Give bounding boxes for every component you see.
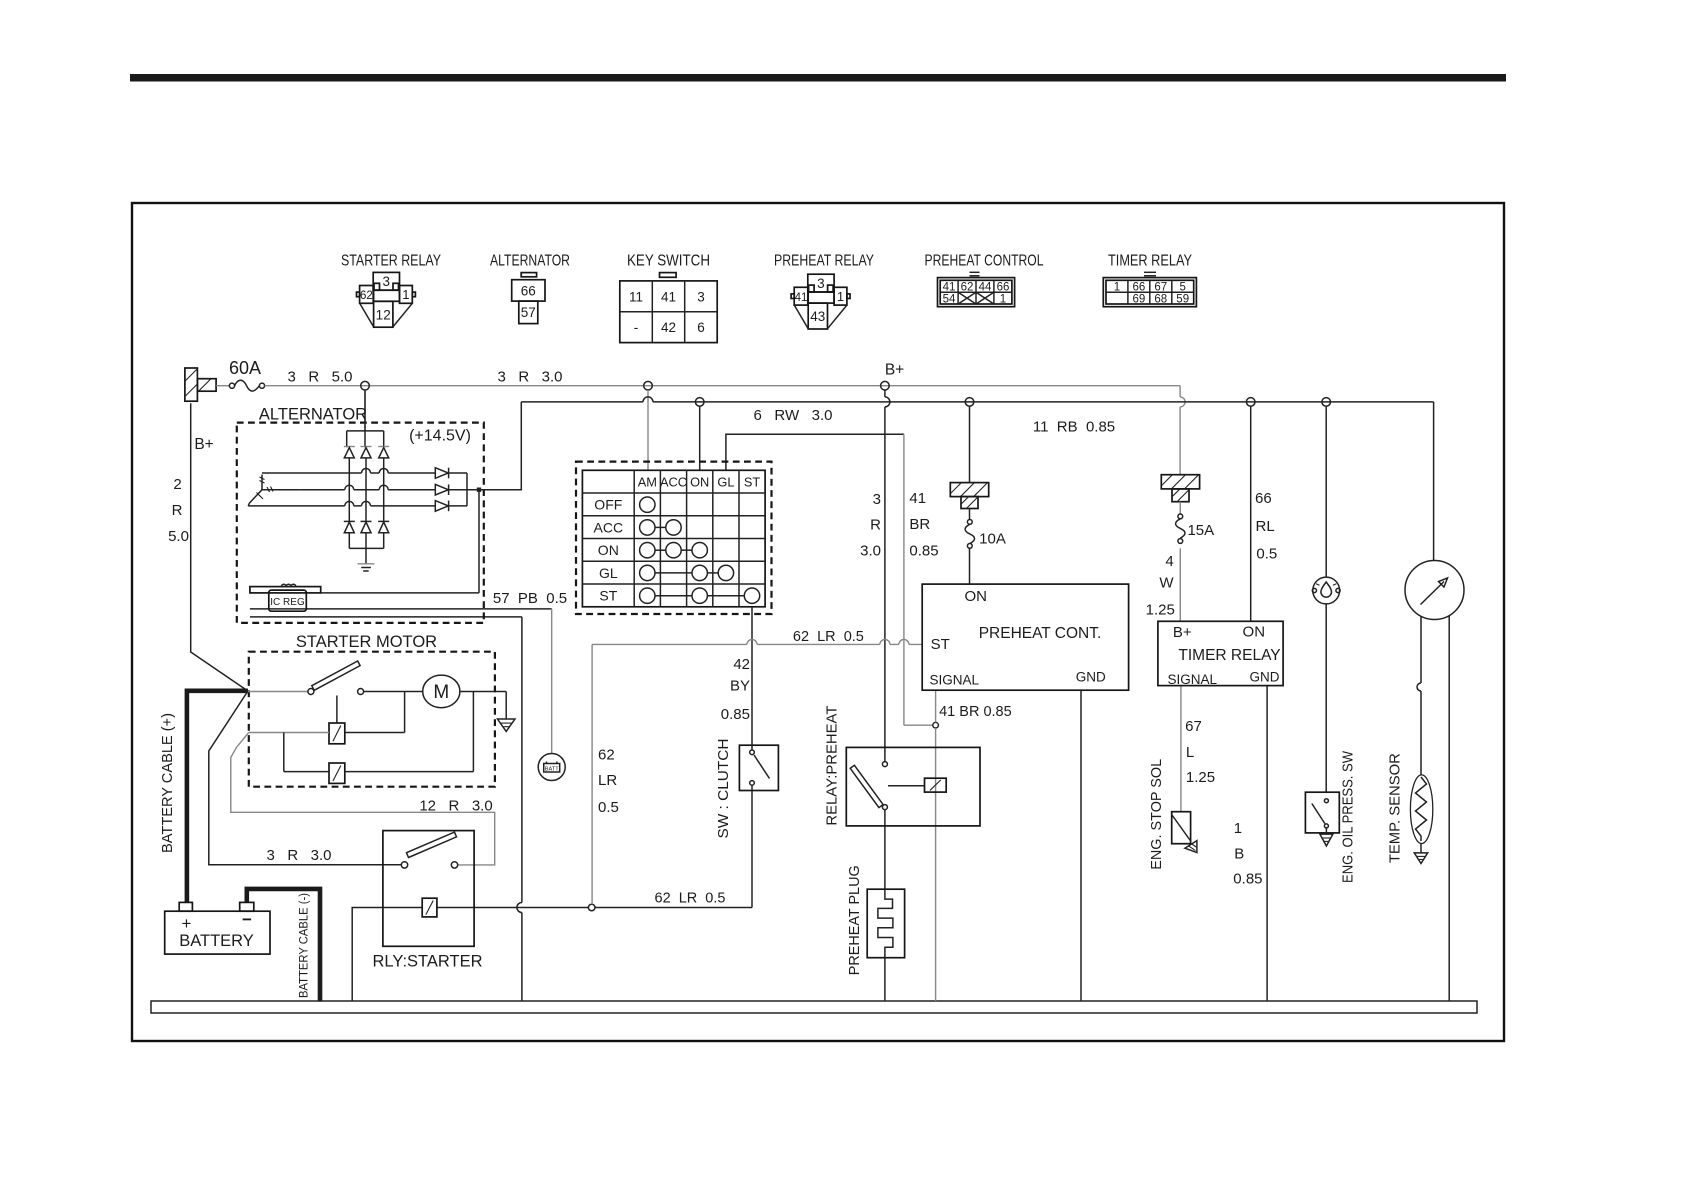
svg-text:−: − [242,910,252,929]
svg-text:LR: LR [598,772,617,789]
svg-text:PREHEAT PLUG: PREHEAT PLUG [846,865,863,975]
svg-text:ST: ST [744,475,761,490]
svg-text:IC REG: IC REG [270,597,305,608]
svg-text:-: - [634,320,639,335]
svg-text:1: 1 [1114,282,1120,294]
svg-text:59: 59 [1176,293,1189,305]
svg-text:ALTERNATOR: ALTERNATOR [259,406,367,424]
svg-text:42: 42 [661,320,676,335]
svg-text:62 LR 0.5: 62 LR 0.5 [793,629,864,645]
svg-text:57 PB 0.5: 57 PB 0.5 [493,590,567,607]
svg-text:R: R [172,502,183,519]
svg-text:ACC: ACC [660,475,687,490]
svg-text:3: 3 [697,290,705,305]
svg-text:W: W [1159,574,1174,591]
svg-text:KEY SWITCH: KEY SWITCH [627,253,710,270]
svg-text:GND: GND [1250,670,1280,685]
svg-text:BATT: BATT [545,767,559,773]
svg-text:RL: RL [1256,518,1275,535]
svg-text:11 RB 0.85: 11 RB 0.85 [1033,419,1115,436]
svg-text:66: 66 [997,282,1010,294]
svg-text:M: M [433,682,449,703]
svg-text:60A: 60A [229,358,261,378]
svg-text:62: 62 [598,747,615,764]
svg-text:42: 42 [733,656,750,673]
svg-text:ENG. STOP SOL: ENG. STOP SOL [1148,759,1165,870]
svg-text:44: 44 [979,282,992,294]
svg-text:3.0: 3.0 [860,543,881,560]
svg-text:66: 66 [1255,490,1272,507]
svg-text:R: R [870,517,881,534]
svg-text:(+14.5V): (+14.5V) [409,428,471,445]
svg-text:ACC: ACC [594,519,624,535]
svg-text:RLY:STARTER: RLY:STARTER [372,953,482,971]
svg-text:3: 3 [383,274,391,289]
svg-text:41: 41 [943,282,956,294]
svg-text:69: 69 [1133,293,1146,305]
svg-text:RELAY:PREHEAT: RELAY:PREHEAT [824,706,841,826]
svg-text:ALTERNATOR: ALTERNATOR [490,253,570,270]
svg-text:11: 11 [629,290,643,305]
svg-text:66: 66 [1133,282,1146,294]
svg-text:3 R 3.0: 3 R 3.0 [266,847,331,864]
svg-text:0.85: 0.85 [1233,871,1262,888]
svg-text:TEMP. SENSOR: TEMP. SENSOR [1387,753,1403,863]
svg-text:B+: B+ [194,436,213,453]
svg-text:4: 4 [1165,553,1173,570]
svg-text:43: 43 [810,309,825,324]
svg-text:GL: GL [599,565,618,581]
svg-text:1: 1 [837,289,844,304]
svg-text:68: 68 [1154,293,1167,305]
svg-text:TIMER RELAY: TIMER RELAY [1178,647,1280,664]
svg-text:3 R 3.0: 3 R 3.0 [497,369,562,386]
svg-text:15A: 15A [1187,522,1214,539]
svg-text:PREHEAT RELAY: PREHEAT RELAY [774,253,874,270]
svg-text:3: 3 [873,491,881,508]
svg-text:62 LR 0.5: 62 LR 0.5 [655,891,726,907]
svg-text:67: 67 [1154,282,1167,294]
svg-text:67: 67 [1185,718,1202,735]
svg-text:OFF: OFF [594,497,622,513]
svg-text:L: L [1186,744,1194,761]
svg-text:6 RW 3.0: 6 RW 3.0 [754,407,833,424]
svg-text:AM: AM [638,475,657,490]
svg-text:62: 62 [360,290,373,302]
svg-text:BATTERY: BATTERY [179,932,254,950]
svg-text:BY: BY [730,678,750,695]
svg-text:3 R 5.0: 3 R 5.0 [287,369,352,386]
svg-text:PREHEAT CONT.: PREHEAT CONT. [979,625,1102,642]
svg-text:PREHEAT CONTROL: PREHEAT CONTROL [925,253,1044,270]
svg-text:ON: ON [690,475,709,490]
svg-text:2: 2 [173,476,181,493]
svg-text:ON: ON [1243,624,1266,641]
svg-text:41: 41 [909,490,926,507]
svg-text:1: 1 [1234,820,1242,837]
svg-text:12 R 3.0: 12 R 3.0 [419,798,492,815]
svg-text:ON: ON [598,542,619,558]
svg-text:57: 57 [521,305,536,320]
svg-text:0.5: 0.5 [598,799,619,816]
svg-text:0.85: 0.85 [909,542,938,559]
svg-text:41: 41 [795,292,808,304]
svg-text:GND: GND [1076,670,1106,685]
svg-text:ON: ON [964,588,987,605]
svg-text:+: + [182,914,192,933]
svg-text:66: 66 [521,284,536,299]
svg-text:BATTERY CABLE (+): BATTERY CABLE (+) [160,713,176,853]
svg-text:41 BR 0.85: 41 BR 0.85 [939,704,1012,720]
svg-text:B+: B+ [885,362,904,379]
svg-text:STARTER MOTOR: STARTER MOTOR [296,633,437,651]
svg-text:1: 1 [1000,293,1006,305]
svg-text:TIMER RELAY: TIMER RELAY [1108,253,1192,270]
svg-text:B: B [1234,846,1244,863]
svg-text:0.5: 0.5 [1256,546,1277,563]
svg-text:ST: ST [931,636,950,653]
svg-text:1: 1 [402,287,409,302]
svg-text:10A: 10A [979,531,1006,548]
svg-text:BATTERY CABLE (-): BATTERY CABLE (-) [299,893,311,998]
svg-text:ST: ST [599,588,617,604]
svg-text:12: 12 [376,307,391,322]
svg-text:STARTER RELAY: STARTER RELAY [341,253,441,270]
svg-text:1.25: 1.25 [1146,602,1175,619]
svg-text:54: 54 [943,293,956,305]
svg-text:3: 3 [817,276,825,291]
svg-text:5: 5 [1179,282,1185,294]
svg-text:SW : CLUTCH: SW : CLUTCH [715,739,732,839]
svg-text:41: 41 [661,290,676,305]
svg-text:GL: GL [717,475,734,490]
svg-text:62: 62 [961,282,974,294]
svg-text:SIGNAL: SIGNAL [930,673,980,688]
svg-text:BR: BR [909,516,930,533]
svg-text:5.0: 5.0 [168,528,189,545]
svg-text:1.25: 1.25 [1186,769,1215,786]
svg-text:0.85: 0.85 [721,706,750,723]
svg-text:SIGNAL: SIGNAL [1168,672,1218,687]
svg-text:B+: B+ [1173,624,1192,641]
svg-text:ENG. OIL PRESS. SW: ENG. OIL PRESS. SW [1340,751,1356,883]
svg-text:6: 6 [697,320,705,335]
